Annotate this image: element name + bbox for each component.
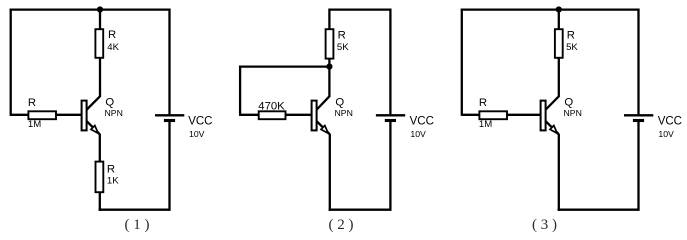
transistor Q2 emitter lead (diagonal): [317, 121, 330, 134]
svg-text:NPN: NPN: [105, 108, 123, 118]
svg-text:5K: 5K: [566, 42, 578, 53]
resistor R1 body (1M, horizontal): [28, 111, 56, 119]
transistor Q3 emitter lead (diagonal): [546, 121, 559, 134]
wire: emitter vertical from R 1K to bottom rail: [99, 192, 101, 211]
svg-text:VCC: VCC: [658, 116, 682, 128]
wire: emitter vertical down to R 1K: [99, 134, 101, 162]
wire: bottom rail circuit 3: [558, 208, 639, 210]
wire: left vertical circuit 1: [10, 9, 12, 116]
resistor R5 body (470K, horizontal): [259, 111, 286, 119]
svg-text:470K: 470K: [258, 100, 285, 112]
transistor Q3 emitter arrow: [550, 126, 557, 134]
wire: top rail circuit 2: [329, 8, 390, 10]
svg-text:( 3 ): ( 3 ): [532, 217, 557, 233]
svg-text:10V: 10V: [410, 129, 426, 139]
svg-text:NPN: NPN: [564, 108, 582, 118]
wire: collector vertical from junction to transistor: [328, 67, 330, 97]
svg-text:10V: 10V: [658, 129, 674, 139]
wire: base segment from R1M to transistor base: [56, 114, 82, 116]
wire: base segment from left rail to R1M: [462, 114, 480, 116]
wire: battery V2 top lead: [389, 9, 391, 115]
transistor Q2 emitter arrow: [321, 126, 328, 134]
transistor Q1 emitter arrow: [91, 126, 98, 134]
transistor Q1 base bar: [82, 101, 87, 131]
svg-text:R: R: [338, 29, 346, 41]
svg-text:10V: 10V: [189, 129, 205, 139]
wire: bottom rail circuit 2: [329, 208, 391, 210]
wire: top rail circuit 3: [461, 8, 639, 10]
transistor Q2 collector lead (diagonal): [317, 96, 330, 109]
svg-text:4K: 4K: [107, 42, 119, 53]
resistor R2 body (4K, vertical): [95, 29, 103, 58]
svg-text:VCC: VCC: [410, 116, 434, 128]
resistor R6 body (1M, horizontal): [479, 111, 507, 119]
svg-text:1M: 1M: [28, 119, 41, 130]
svg-text:1K: 1K: [107, 176, 119, 187]
resistor R3 body (1K, vertical): [96, 162, 104, 193]
transistor Q3 base bar: [541, 101, 546, 131]
svg-text:NPN: NPN: [335, 108, 353, 118]
svg-text:R: R: [479, 97, 487, 109]
svg-text:R: R: [567, 29, 575, 41]
svg-text:Q: Q: [564, 97, 573, 109]
svg-text:R: R: [107, 164, 115, 176]
svg-text:VCC: VCC: [188, 116, 212, 128]
battery V1 positive plate: [155, 114, 184, 116]
wire: collector vertical from top rail to R 5K: [328, 9, 330, 30]
junction: collector node on top rail circuit 3: [556, 6, 562, 12]
wire: collector vertical from top rail to R 5K: [558, 10, 560, 30]
battery V2 positive plate: [376, 114, 405, 116]
svg-text:Q: Q: [335, 97, 344, 109]
wire: feedback horizontal to the left: [240, 65, 329, 67]
wire: collector vertical from top rail to R 4K: [99, 10, 101, 30]
wire: bottom rail circuit 1: [99, 208, 170, 210]
wire: battery V1 top lead: [168, 9, 170, 115]
wire: emitter vertical to bottom rail circuit 3: [558, 134, 560, 211]
transistor Q1 collector lead (diagonal): [87, 96, 100, 109]
wire: left vertical circuit 3: [461, 9, 463, 116]
battery V3 positive plate: [624, 114, 653, 116]
wire: emitter vertical to bottom rail circuit 2: [329, 134, 331, 211]
wire: feedback left vertical: [239, 66, 241, 116]
svg-text:1M: 1M: [479, 119, 492, 130]
svg-text:( 2 ): ( 2 ): [329, 217, 354, 233]
wire: base segment from R 470K to transistor base: [286, 114, 312, 116]
junction: feedback node circuit 2: [326, 64, 332, 70]
wire: top rail circuit 1: [10, 8, 170, 10]
wire: battery V3 bottom lead: [637, 122, 639, 211]
battery V3 negative plate: [633, 119, 644, 122]
wire: base segment from left rail to R1M: [11, 114, 29, 116]
transistor Q2 base bar: [312, 101, 317, 131]
wire: battery V3 top lead: [637, 9, 639, 115]
transistor Q1 emitter lead (diagonal): [87, 121, 100, 134]
wire: base segment from R1M to transistor base: [507, 114, 541, 116]
battery V1 negative plate: [164, 119, 175, 122]
junction: collector node on top rail circuit 1: [97, 6, 103, 12]
svg-text:5K: 5K: [337, 42, 349, 53]
svg-text:R: R: [28, 97, 36, 109]
resistor R7 body (5K, vertical): [555, 29, 563, 58]
wire: battery V2 bottom lead: [389, 122, 391, 211]
transistor Q3 collector lead (diagonal): [546, 96, 559, 109]
wire: from R 5K down to feedback junction: [328, 59, 330, 67]
resistor R4 body (5K, vertical): [326, 29, 334, 58]
battery V2 negative plate: [385, 119, 396, 122]
wire: collector vertical from R 4K down to transistor: [99, 58, 101, 97]
svg-text:( 1 ): ( 1 ): [125, 217, 150, 233]
wire: battery V1 bottom lead: [168, 122, 170, 211]
wire: base segment from feedback wire to R 470K: [240, 114, 259, 116]
wire: collector vertical from R 5K down to transistor: [558, 58, 560, 97]
svg-text:Q: Q: [105, 97, 114, 109]
svg-text:R: R: [108, 29, 116, 41]
